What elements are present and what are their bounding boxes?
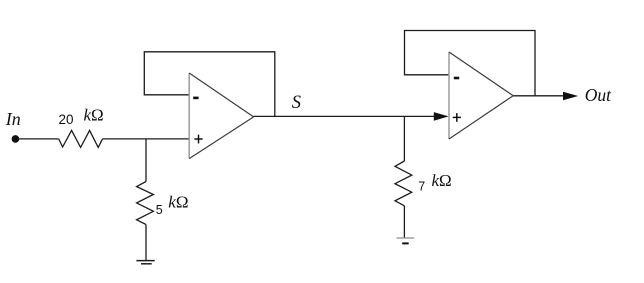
svg-text:kΩ: kΩ [432, 171, 452, 190]
resistor R1 (20 k) zigzag [59, 130, 103, 147]
wire R3 to ground [403, 206, 405, 238]
svg-text:5: 5 [156, 203, 163, 217]
svg-text:In: In [5, 109, 21, 129]
svg-text:S: S [292, 93, 301, 113]
ground (below R3) [397, 238, 415, 243]
op-amp U2 [449, 52, 513, 139]
pin label minus U2 [454, 77, 459, 80]
wire U1 output to U2 input [254, 115, 435, 117]
svg-text:kΩ: kΩ [168, 192, 188, 211]
wire R1 to op-amp U1 plus input [103, 138, 190, 140]
arrow into U2 plus input [434, 112, 449, 121]
svg-text:kΩ: kΩ [84, 106, 104, 125]
node junction R2 tap [145, 139, 147, 182]
svg-text:Out: Out [585, 85, 612, 105]
node junction R3 tap [403, 116, 405, 161]
resistor R3 (7 k) vertical zigzag [395, 161, 412, 206]
node In terminal dot [12, 135, 20, 143]
pin label plus U1 [194, 135, 202, 144]
wire R2 to ground [145, 225, 147, 261]
svg-text:20: 20 [59, 112, 74, 127]
svg-text:7: 7 [418, 179, 425, 193]
wire feedback U2 minus input [405, 31, 536, 96]
op-amp U1 [189, 73, 253, 159]
arrow Out [563, 92, 578, 101]
ground (below R2) [136, 261, 154, 264]
pin label plus U2 [453, 113, 461, 122]
resistor R2 (5 k) vertical zigzag [137, 182, 154, 225]
wire feedback U1 minus input [144, 52, 274, 117]
wire input to R1 [19, 138, 59, 140]
wire U2 output [513, 95, 563, 97]
pin label minus U1 [193, 97, 198, 100]
